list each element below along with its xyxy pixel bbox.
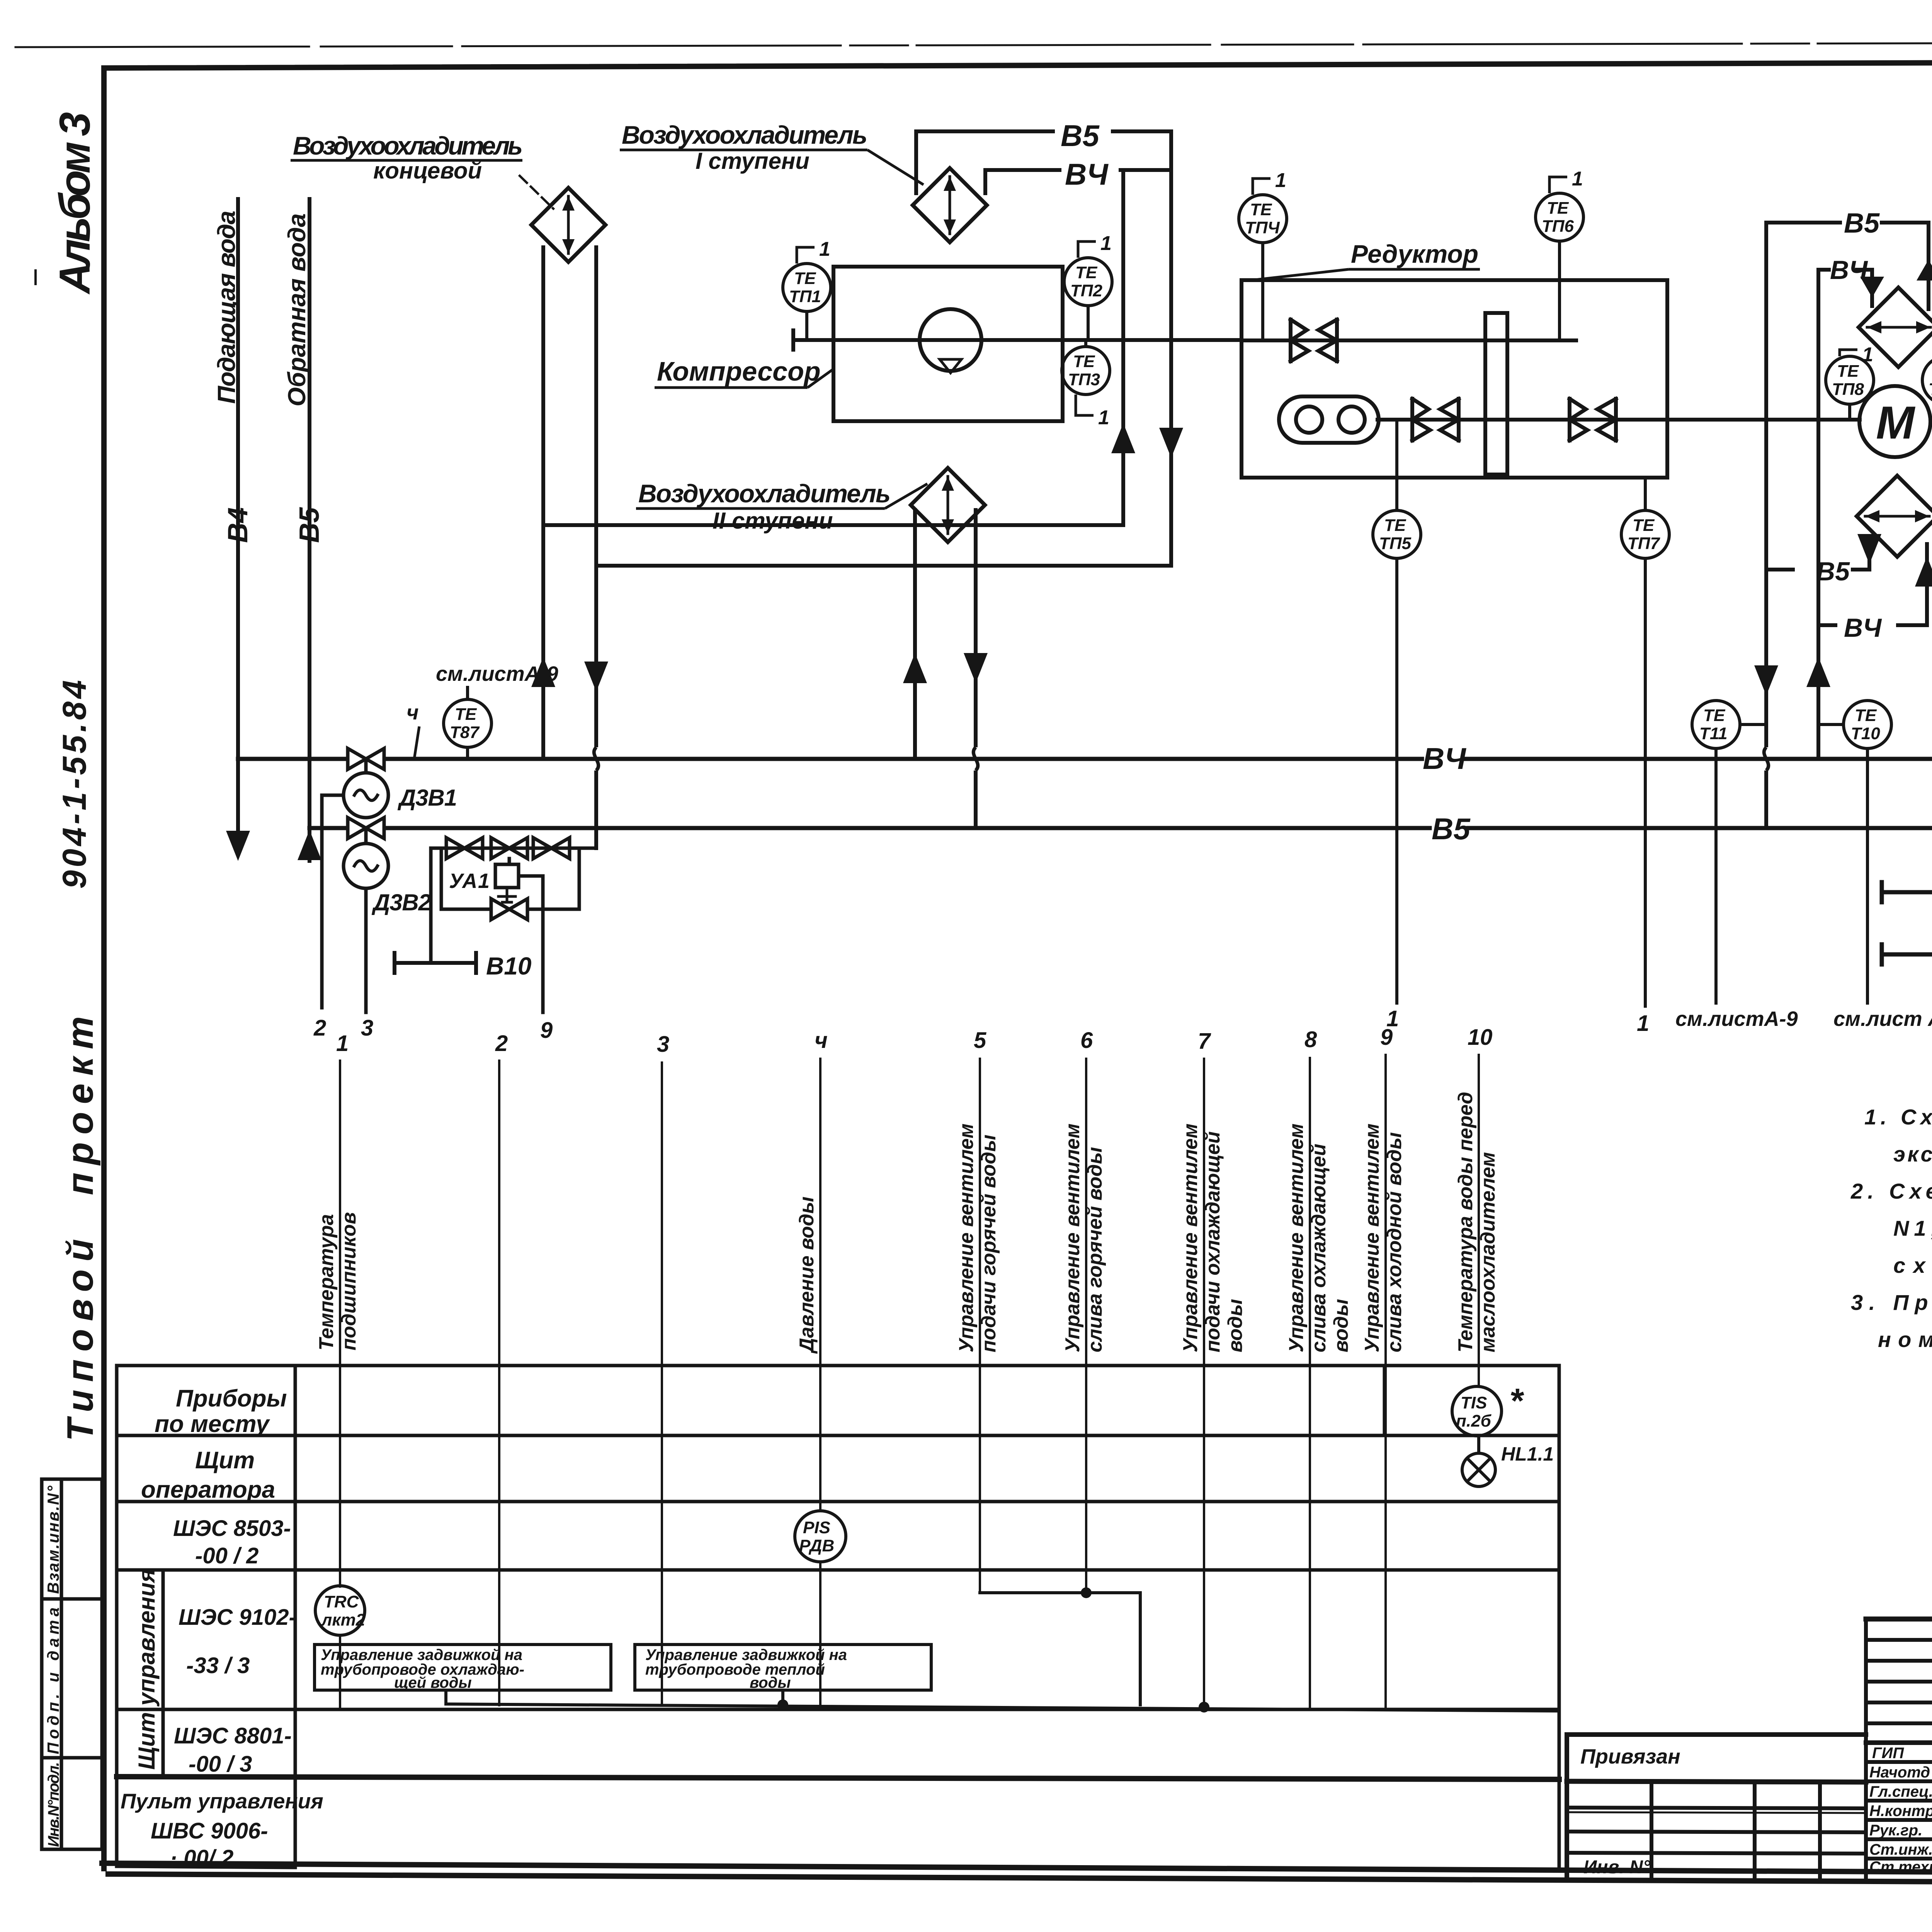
wire: B4 riser down [1121,170,1125,525]
svg-text:TIS: TIS [1461,1393,1487,1412]
svg-text:ТЕ: ТЕ [1384,516,1406,535]
svg-text:PIS: PIS [803,1518,830,1537]
valve on UA1 bypass [491,899,527,920]
svg-text:ТП9: ТП9 [1929,380,1932,399]
valve 2 on UA1 row [491,838,527,859]
wire: UA1 square right stem to signal 9 [519,876,543,1012]
instrument TE TP3 [1062,340,1110,415]
svg-text:В5: В5 [1844,208,1880,239]
svg-text:ТЕ: ТЕ [1837,362,1859,381]
svg-text:3: 3 [657,1032,669,1057]
wire: podayushchaya voda line B4 [236,199,240,837]
svg-text:Подающая вода: Подающая вода [213,211,240,404]
TIS cell box [1383,1366,1386,1435]
wire: B4 riser right side [1816,270,1820,759]
svg-text:TRC: TRC [324,1592,359,1611]
instrument TE TP1 [783,247,831,340]
wire: bus B5 [310,826,1932,830]
instrument TE TP8 [1826,350,1874,422]
wire: UA1 row from B5 channel [446,847,596,850]
svg-text:1: 1 [1862,344,1873,366]
leader line to end cooler label [520,176,553,209]
junction dot line7 [1199,1702,1209,1713]
signature rows [1869,1745,1932,1876]
wire: T6 line [1882,952,1932,957]
wire: TRC stub below [339,1635,341,1709]
wire: B5 riser down [1169,131,1173,566]
upper shaft inside reducer [1242,338,1576,342]
arrow down on B5 riser [1754,665,1778,696]
svg-text:УА1: УА1 [449,869,490,893]
heat exchanger diamond: II stage cooler [911,468,985,542]
svg-text:Рук.гр.: Рук.гр. [1869,1822,1922,1839]
svg-text:лкт2: лкт2 [321,1611,366,1629]
svg-text:ТПЧ: ТПЧ [1245,218,1280,237]
privyazan block [1567,1735,1866,1877]
svg-text:Типовой проект: Типовой проект [60,1016,101,1441]
svg-text:N1, для компрессорных агрег: N1, для компрессорных агрегатов N2-N6(4) [1893,1216,1932,1240]
oval coupling with two circles [1279,396,1379,443]
wire: B4 branch to lower cooler [1818,544,1927,625]
instrument TE T87 [444,686,492,759]
svg-text:II ступени: II ступени [713,508,833,534]
svg-text:ТЕ: ТЕ [1250,200,1272,219]
wire: I-stage right corner up to B4 top line [983,170,987,193]
svg-text:5: 5 [974,1028,986,1053]
svg-text:7: 7 [1198,1029,1211,1054]
wire: T5 line [1882,890,1932,895]
wire: B4 branch to upper cooler [1818,270,1872,306]
junction dot line6 [1081,1587,1092,1598]
instrument TE TP5 [1373,421,1421,1005]
svg-text:Альбом 3: Альбом 3 [51,112,99,295]
svg-text:Д3В2: Д3В2 [371,889,431,915]
compressor circle [920,309,981,371]
svg-text:оператора: оператора [141,1476,275,1503]
svg-text:Инв.N°подл.: Инв.N°подл. [45,1762,62,1847]
svg-text:M: M [1876,397,1916,449]
signature table rows [1866,1638,1932,1642]
arrow up on II-stage left riser [903,653,927,683]
svg-text:ТП8: ТП8 [1832,380,1864,399]
wire: bottom bus [446,1704,1559,1711]
svg-text:1: 1 [1100,232,1112,255]
svg-text:ному чертежу.: ному чертежу. [1878,1327,1932,1352]
svg-text:ТЕ: ТЕ [1703,706,1726,725]
arrow up on B4 riser [1806,657,1830,687]
svg-text:ТЕ: ТЕ [1855,706,1877,725]
instrument TE TP7 [1621,478,1669,1008]
wire: branch line second-stage B5 side [596,564,1171,568]
svg-text:1: 1 [1098,406,1109,429]
svg-text:РДВ: РДВ [799,1536,834,1555]
wire: B10 line with end caps [395,953,476,973]
svg-text:3: 3 [361,1015,373,1041]
svg-text:подачи охлаждающей: подачи охлаждающей [1202,1131,1224,1352]
paper top torn edge dashed line [15,42,1932,47]
wire: D3V2 stem to signal 3 [364,888,368,1012]
svg-text:904-1-55.84: 904-1-55.84 [56,680,93,889]
svg-text:Управление вентилем: Управление вентилем [1061,1124,1084,1352]
svg-text:1: 1 [336,1031,349,1056]
svg-text:ТП5: ТП5 [1379,534,1412,553]
svg-text:воды: воды [1224,1299,1247,1352]
motor M circle [1859,386,1930,457]
wire: end cooler right channel down to B5 and UA1 [594,247,598,848]
svg-text:ТП7: ТП7 [1628,534,1661,553]
svg-text:Температура воды перед: Температура воды перед [1454,1092,1477,1352]
svg-text:ТЕ: ТЕ [1073,352,1095,371]
wire: II-stage left corner riser down to B4 bus [913,510,917,759]
wire: B4 top line [985,168,1171,172]
svg-text:ВЧ: ВЧ [1423,742,1466,776]
svg-text:ТЕ: ТЕ [1075,263,1098,282]
wire: B5 riser right side [1764,223,1768,828]
instrument TRC LKT2 [315,1586,365,1635]
wire: B5 branch to lower cooler [1766,537,1869,570]
stamp outer and row lines [1866,1617,1932,1622]
svg-text:2: 2 [495,1031,508,1056]
svg-text:ТП2: ТП2 [1070,281,1103,300]
svg-text:Д3В1: Д3В1 [397,785,457,811]
svg-text:Управление вентилем: Управление вентилем [955,1124,978,1352]
svg-text:*: * [1509,1382,1524,1420]
svg-text:В5: В5 [294,507,325,543]
wire: II-stage right corner riser down to B5 bus [974,510,978,828]
svg-text:Давление воды: Давление воды [796,1197,818,1354]
arrow up on B4 riser [1111,423,1135,453]
svg-text:Гл.спец.: Гл.спец. [1869,1783,1932,1800]
svg-text:ч: ч [406,701,418,724]
svg-text:слива холодной воды: слива холодной воды [1383,1132,1406,1352]
svg-text:9: 9 [1380,1025,1393,1050]
svg-text:см.листА·9: см.листА·9 [436,662,558,685]
arrow down on B5 riser [1159,428,1183,458]
svg-text:Щит: Щит [195,1447,255,1474]
svg-text:-00 / 3: -00 / 3 [189,1752,252,1777]
svg-text:Пульт управления: Пульт управления [121,1789,323,1813]
svg-text:1: 1 [1572,168,1583,190]
wire crossing jog marks [581,747,1932,904]
svg-text:эксплуатации ОВМ 15 РЭ ПО „ Ку: эксплуатации ОВМ 15 РЭ ПО „ Курганармхим… [1893,1142,1932,1166]
instrument TE TP2 [1064,241,1112,340]
svg-text:Т87: Т87 [450,723,480,742]
svg-text:подшипников: подшипников [338,1212,360,1350]
wire: UA1 bypass loop [441,848,579,909]
svg-text:Т11: Т11 [1699,724,1728,743]
svg-text:ШЭС 9102-: ШЭС 9102- [179,1605,296,1630]
svg-text:Привязан: Привязан [1580,1745,1680,1768]
svg-text:ШВС 9006-: ШВС 9006- [151,1818,268,1844]
svg-text:Инв. N°: Инв. N° [1583,1857,1651,1878]
wire: UA1 left corner down to B10 [431,848,446,963]
shaft line through compressor [793,338,1242,342]
svg-text:Н.контр.: Н.контр. [1869,1803,1932,1820]
svg-text:6: 6 [1080,1028,1093,1053]
svg-text:В10: В10 [486,952,531,980]
wire: end cooler left channel down to B4 [541,247,545,759]
svg-text:Воздухоохладитель: Воздухоохладитель [293,131,523,160]
svg-text:слива горячей воды: слива горячей воды [1084,1147,1106,1352]
svg-text:Подп. и дата: Подп. и дата [44,1607,62,1754]
svg-text:В5: В5 [1816,557,1850,586]
wire: B5 branch to upper cooler [1766,223,1929,309]
arrow up on return line [298,830,321,860]
pipe number 4 tag [414,726,419,759]
svg-text:3. Приборы отмеченные * зак: 3. Приборы отмеченные * заказываются по … [1851,1290,1932,1315]
svg-text:по месту: по месту [155,1411,270,1437]
svg-text:1: 1 [819,238,830,260]
arrow down on supply line [226,831,250,861]
svg-text:см.лист А-9: см.лист А-9 [1833,1007,1932,1031]
valve 3 on UA1 row [533,838,570,859]
wire: PIS stub below [819,1563,821,1709]
svg-text:Обратная вода: Обратная вода [283,213,311,406]
lamp HL1.1 [1462,1436,1495,1486]
engine cooler diamond lower [1857,476,1932,557]
instrument TE TP9 [1922,350,1932,422]
wire: branch line second-stage B4 side [543,523,1123,527]
svg-text:8: 8 [1304,1027,1317,1052]
wire: box2 stub [781,1690,784,1705]
svg-text:Приборы: Приборы [176,1385,287,1412]
heat exchanger diamond: end cooler [531,188,605,262]
svg-text:ТЕ: ТЕ [1547,199,1569,218]
svg-text:Редуктор: Редуктор [1351,240,1478,268]
svg-text:маслоохладителем: маслоохладителем [1477,1152,1499,1352]
arrow down into lower cooler B5 [1857,534,1881,564]
arrow down into upper cooler B4 [1860,277,1884,298]
svg-text:ТП3: ТП3 [1068,370,1100,389]
svg-text:щей воды: щей воды [394,1674,472,1691]
gear tall rectangle [1485,313,1507,474]
svg-text:Управление вентилем: Управление вентилем [1361,1124,1383,1352]
compressor box [833,267,1063,421]
svg-text:10: 10 [1468,1025,1493,1050]
lower shaft [1378,418,1860,422]
instrument TE TP4 [1239,179,1287,340]
reducer box [1242,280,1667,478]
valve D3V1 on B4 [322,748,388,1008]
valve D3V2 on B5 [344,818,388,1012]
svg-text:Щит управления: Щит управления [134,1569,160,1770]
wire: D3V1 stem to signal 2 [322,795,344,1008]
arrow down on right channel [584,662,608,692]
note box 1: control of gate valve on cooling water pipe [315,1645,611,1690]
instrument TE TP6 [1536,177,1583,340]
svg-text:воды: воды [750,1674,791,1691]
heat exchanger diamond: I stage cooler [913,168,987,242]
svg-text:-33 / 3: -33 / 3 [186,1653,250,1678]
svg-text:Начотд: Начотд [1869,1764,1930,1781]
coupling symbol pair on lower shaft left [1412,399,1459,440]
svg-text:трубопроводе теплой: трубопроводе теплой [645,1661,825,1678]
instrument TE T11 [1692,701,1766,1005]
svg-text:Взам.инв.N°: Взам.инв.N° [44,1485,62,1594]
svg-text:1: 1 [1275,169,1286,192]
svg-text:Температура: Температура [315,1214,338,1350]
svg-text:см.листА-9: см.листА-9 [1675,1007,1798,1031]
wire: B5 top line [916,129,1171,133]
wire: box1 stub [444,1690,447,1704]
svg-text:Воздухоохладитель: Воздухоохладитель [638,479,891,508]
arrow down on II-stage right riser [964,653,988,683]
shaft stub right of motor [1930,420,1932,423]
valve 1 on UA1 row [446,838,483,859]
svg-text:ч: ч [815,1028,828,1053]
svg-text:п.2б: п.2б [1456,1412,1492,1430]
svg-text:В5: В5 [1432,812,1471,846]
junction dot box2 [777,1699,788,1710]
svg-text:-00 / 2: -00 / 2 [195,1543,259,1568]
arrow up on left channel [531,657,555,687]
arrow up from upper cooler B5 [1917,260,1932,281]
svg-text:Управление вентилем: Управление вентилем [1285,1124,1308,1352]
svg-text:ШЭС 8503-: ШЭС 8503- [173,1516,291,1541]
coupling symbol pair on lower shaft right [1570,399,1616,440]
wire: bus B4 [238,757,1932,761]
svg-text:9: 9 [540,1018,553,1043]
wire: signal stub down lines 1..10 [339,1061,341,1587]
svg-text:ТП6: ТП6 [1542,217,1574,236]
svg-text:ВЧ: ВЧ [1844,613,1882,643]
wire: I-stage left corner up to B5 top line [914,131,918,193]
svg-text:ВЧ: ВЧ [1065,157,1109,191]
svg-text:Компрессор: Компрессор [657,356,821,386]
arrow up on lower cooler B4 line [1915,556,1932,587]
solenoid square UA1 [508,859,511,864]
wire: obratnaya voda line B5 [308,199,311,861]
wire: link line 5/6 bus [980,1593,1140,1705]
svg-text:Ст.техн.: Ст.техн. [1869,1859,1932,1876]
bottom connection wiring [446,1593,1559,1711]
svg-text:1. Схема выполнена на основани: 1. Схема выполнена на основании „ Руково… [1864,1105,1932,1129]
svg-text:схема аналогична.: схема аналогична. [1893,1253,1932,1277]
engine cooler diamond upper [1859,287,1932,367]
svg-text:ТЕ: ТЕ [455,705,477,724]
svg-text:Ст.инж.: Ст.инж. [1869,1841,1932,1858]
svg-text:2: 2 [313,1015,326,1041]
svg-text:ТЕ: ТЕ [794,269,816,288]
svg-text:Воздухоохладитель: Воздухоохладитель [622,121,867,149]
instrument TIS p.2b with asterisk [1452,1386,1502,1436]
note box 2: control of gate valve on warm water pipe [635,1645,931,1690]
svg-text:ТЕ: ТЕ [1633,516,1655,535]
svg-text:подачи горячей воды: подачи горячей воды [978,1134,1000,1352]
svg-text:воды: воды [1330,1299,1352,1352]
coupling symbol pair on upper shaft [1291,320,1337,361]
instrument TE T10 [1818,701,1891,1005]
svg-text:Т10: Т10 [1851,724,1880,743]
svg-text:· 00/ 2: · 00/ 2 [170,1845,233,1871]
svg-text:I ступени: I ступени [696,148,810,174]
svg-text:В5: В5 [1061,119,1100,153]
svg-text:ШЭС 8801-: ШЭС 8801- [174,1723,292,1748]
svg-text:ТП1: ТП1 [789,287,821,306]
svg-text:слива охлаждающей: слива охлаждающей [1308,1144,1330,1352]
instrument PIS RDV [795,1511,846,1562]
left margin small boxes (Vzam.inv / Podp i data / Inv.N podl) [36,270,102,1849]
svg-text:HL1.1: HL1.1 [1501,1443,1554,1465]
svg-text:1: 1 [1637,1011,1649,1036]
svg-text:В4: В4 [223,507,253,543]
svg-text:Управление вентилем: Управление вентилем [1179,1124,1202,1352]
svg-text:2. Схема выполнена для компрес: 2. Схема выполнена для компрессорного аг… [1850,1179,1932,1203]
svg-text:ГИП: ГИП [1872,1745,1904,1762]
